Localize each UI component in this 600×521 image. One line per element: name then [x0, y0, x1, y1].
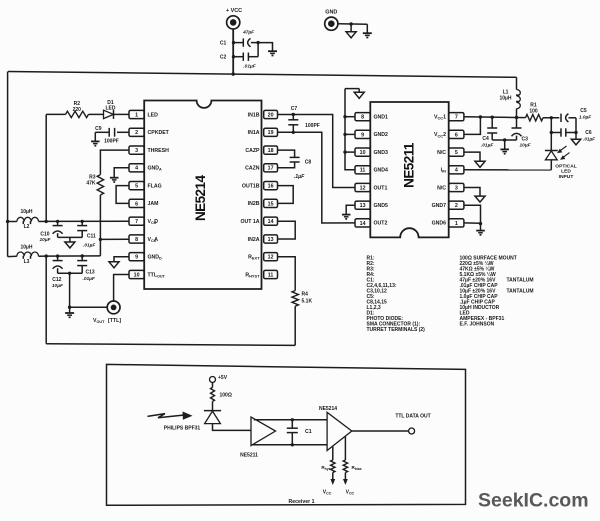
pin 12 NE5211: [355, 183, 370, 191]
svg-text:14: 14: [268, 219, 274, 225]
svg-text:LED: LED: [561, 169, 571, 175]
wire R2 row: [46, 113, 65, 115]
node L3/riser: [45, 254, 48, 257]
svg-text:C8: C8: [305, 159, 312, 165]
pin 5 NE5214: [129, 182, 144, 190]
light arrows into photodiode: [559, 146, 567, 152]
svg-text:+ VCC: + VCC: [226, 8, 242, 14]
wire pin4 GND_A: [114, 168, 129, 178]
svg-text:5: 5: [455, 150, 458, 156]
light arrows into BPF31: [148, 414, 189, 418]
svg-text:LED: LED: [148, 112, 159, 118]
svg-text:10µF: 10µF: [39, 237, 51, 243]
node GND6/7: [479, 222, 482, 225]
svg-text:C7: C7: [291, 106, 298, 112]
svg-text:CPKDET: CPKDET: [148, 130, 170, 136]
svg-text:C12: C12: [52, 277, 61, 283]
pin 13 NE5211: [355, 201, 370, 209]
node GND1: [343, 115, 346, 118]
pin 15 NE5214: [264, 199, 278, 207]
svg-text:6: 6: [135, 201, 138, 207]
capacitor C1 47uF: [234, 42, 244, 44]
svg-text:6: 6: [455, 132, 458, 138]
ground arrow C5/C6: [575, 133, 577, 140]
svg-text:C1: C1: [220, 40, 227, 46]
wire ground row to Vout terminal: [70, 306, 107, 308]
svg-text:C6: C6: [585, 130, 592, 136]
ground C9: [94, 132, 96, 141]
amplifier NE5211 receiver: [251, 417, 276, 446]
capacitor C2 .01uF: [234, 56, 244, 58]
svg-text:4: 4: [135, 166, 138, 172]
wire C3/C4 ground node: [492, 139, 516, 141]
svg-text:GND5: GND5: [374, 203, 389, 209]
wire C10/C11 ground node: [58, 236, 83, 238]
resistor R2 220: [66, 111, 89, 117]
wire pin5 N/C: [464, 152, 480, 161]
svg-text:11: 11: [268, 272, 274, 278]
svg-text:TTL DATA OUT: TTL DATA OUT: [395, 414, 430, 420]
wire pin4 Iin: [464, 169, 551, 171]
svg-text:2: 2: [455, 203, 458, 209]
svg-text:100PF: 100PF: [104, 138, 119, 144]
pin 10 NE5211: [355, 148, 370, 156]
wire Iin riser: [550, 118, 552, 150]
node C3/C4: [503, 138, 506, 141]
diode D1 LED: [104, 110, 114, 118]
ground hatch C3/C4: [500, 148, 509, 150]
svg-text:R4: R4: [302, 292, 309, 298]
svg-text:INPUT: INPUT: [559, 174, 574, 180]
svg-text:N/C: N/C: [437, 150, 446, 156]
node C1 bottom: [291, 443, 294, 446]
svg-text:+5V: +5V: [218, 375, 228, 381]
ground arrow pin3: [475, 196, 485, 202]
pin 11 NE5211: [355, 166, 370, 174]
wire bottom return loop: [46, 344, 295, 346]
svg-text:47µF: 47µF: [242, 30, 255, 36]
wire TTL data out: [352, 430, 409, 432]
svg-text:NE5214: NE5214: [193, 175, 208, 222]
svg-text:GND3: GND3: [374, 150, 389, 156]
inductor L1 10uH: [516, 77, 518, 89]
svg-text:IN1B: IN1B: [248, 112, 260, 118]
node C12 tap: [56, 254, 59, 257]
capacitor C6 .01uF: [551, 132, 561, 134]
wire L2 row to pin 7: [46, 220, 129, 222]
svg-text:8: 8: [361, 115, 364, 121]
node C6 right: [574, 131, 577, 134]
node Vout ground tee: [68, 306, 71, 309]
pin 7 NE5214: [129, 217, 144, 225]
node C10 tap: [56, 220, 59, 223]
wire C5 right down to C6: [575, 118, 577, 133]
node L1/C3 tap: [515, 116, 518, 119]
svg-text:10µF: 10µF: [52, 283, 64, 289]
svg-text:10: 10: [134, 272, 140, 278]
inductor L3 10uH: [8, 255, 17, 257]
svg-text:20: 20: [268, 112, 274, 118]
svg-text:47K: 47K: [86, 181, 96, 187]
wire pin1 GND6: [464, 222, 481, 224]
resistor R4 5.1K: [292, 291, 298, 307]
wire OUT1A-IN2A loop: [278, 221, 296, 239]
node C7 bottom: [292, 131, 295, 134]
pin 19 NE5214: [264, 128, 278, 136]
svg-text:10: 10: [360, 150, 366, 156]
capacitor C11 .01uF: [81, 221, 83, 225]
capacitor C10 10uF: [57, 221, 59, 225]
svg-text:D: D: [154, 219, 158, 225]
svg-text:CAZN: CAZN: [245, 166, 260, 172]
svg-text:.01µF: .01µF: [83, 276, 96, 282]
node GND branch: [349, 22, 352, 25]
wire GND to grounds: [338, 23, 367, 25]
svg-text:13: 13: [360, 203, 366, 209]
svg-text:OUT2: OUT2: [374, 221, 388, 227]
svg-text:8: 8: [135, 237, 138, 243]
wire pin12 Rext to R4: [278, 257, 296, 291]
pin 13 NE5214: [264, 235, 278, 243]
ground C1/C2: [268, 50, 277, 52]
svg-text:Receiver 1: Receiver 1: [289, 499, 315, 505]
node GND2: [343, 133, 346, 136]
svg-text:R3: R3: [89, 174, 96, 180]
wire Vcc1 row: [464, 116, 526, 119]
pin 20 NE5214: [264, 110, 278, 118]
svg-text:NE5211: NE5211: [402, 142, 417, 188]
node C1 top: [291, 418, 294, 421]
wire return riser lower: [45, 256, 47, 344]
pin 6 NE5214: [129, 199, 144, 207]
svg-text:R1: R1: [530, 103, 537, 109]
svg-text:OUT 1A: OUT 1A: [240, 219, 259, 225]
pin 3 NE5214: [129, 146, 144, 154]
node C11 tap: [81, 220, 84, 223]
pin 6 NE5211: [449, 130, 464, 138]
svg-text:GND6: GND6: [432, 221, 447, 227]
pin 12 NE5214: [264, 253, 278, 261]
svg-text:RHYST: RHYST: [245, 272, 260, 278]
node C2 tap: [232, 55, 235, 58]
svg-text:100: 100: [529, 109, 538, 115]
svg-text:10µH: 10µH: [20, 209, 32, 215]
capacitor C12 10uF: [57, 256, 59, 261]
svg-text:FLAG: FLAG: [148, 183, 162, 189]
svg-text:A: A: [154, 237, 158, 243]
pin 16 NE5214: [264, 182, 278, 190]
pin 3 NE5211: [449, 183, 464, 191]
svg-text:L3: L3: [24, 259, 30, 265]
wire pin13 GND5: [346, 205, 355, 214]
photodiode optical input: [545, 150, 558, 152]
svg-text:C2: C2: [220, 55, 227, 61]
pin 18 NE5214: [264, 146, 278, 154]
svg-text:E.F. JOHNSON: E.F. JOHNSON: [460, 321, 495, 327]
wire pin19 IN1A to OUT2: [278, 132, 356, 223]
svg-text:OUT1: OUT1: [374, 185, 388, 191]
svg-text:9: 9: [361, 132, 364, 138]
pin 1 NE5214: [129, 110, 144, 118]
pin 8 NE5214: [129, 235, 144, 243]
pin 14 NE5211: [355, 219, 370, 227]
capacitor C8 .1uF between CAZP/CAZN: [278, 150, 295, 157]
pin 9 NE5214: [129, 253, 144, 261]
svg-text:17: 17: [268, 166, 274, 172]
wire L3 row to VccA riser: [46, 255, 100, 257]
wire FLAG-JAM loop: [116, 186, 129, 204]
node C12/C13: [68, 272, 71, 275]
wire D1 to pin 1: [114, 113, 130, 115]
svg-text:LED: LED: [106, 106, 116, 112]
svg-text:3: 3: [135, 148, 138, 154]
terminal GND: [325, 17, 338, 30]
inductor L2 10uH: [8, 221, 17, 223]
pin 14 NE5214: [264, 217, 278, 225]
svg-text:10µH: 10µH: [20, 244, 32, 250]
wire pin6 Vcc2: [464, 117, 480, 134]
wire diff rails: [254, 419, 327, 421]
svg-text:100PF: 100PF: [305, 123, 320, 129]
svg-text:N/C: N/C: [437, 185, 446, 191]
pin 2 NE5211: [449, 201, 464, 209]
node pin8 junction: [99, 238, 102, 241]
svg-text:C11: C11: [87, 233, 96, 239]
svg-text:C13: C13: [86, 270, 95, 276]
svg-text:NE5211: NE5211: [240, 452, 258, 458]
pin 11 NE5214: [264, 270, 278, 278]
capacitor C9 100PF: [108, 128, 110, 137]
wire R3 to VccA rail: [99, 195, 101, 256]
node left rail / L2: [6, 220, 9, 223]
svg-text:C4: C4: [482, 136, 489, 142]
svg-text:1: 1: [135, 112, 138, 118]
wire OUT1B-IN2B loop: [278, 186, 294, 204]
pin 8 NE5211: [355, 113, 370, 121]
svg-text:.01µF: .01µF: [83, 242, 96, 248]
svg-text:5: 5: [135, 184, 138, 190]
svg-text:10µH: 10µH: [499, 96, 511, 102]
svg-text:THRESH: THRESH: [148, 148, 170, 154]
wire C12/C13 ground node: [58, 272, 83, 274]
op-amp U2 NE5211 transimpedance amplifier: [370, 102, 448, 237]
svg-text:5.1K: 5.1K: [302, 298, 313, 304]
svg-text:TANTALUM: TANTALUM: [507, 277, 534, 283]
pin 7 NE5211: [449, 113, 464, 121]
ground earth pin4: [110, 177, 119, 179]
svg-text:GND1: GND1: [374, 115, 389, 121]
capacitor C13 .01uF: [81, 256, 83, 261]
svg-text:7: 7: [135, 219, 138, 225]
node C7 top: [292, 113, 295, 116]
node C6 left: [550, 131, 553, 134]
svg-text:15: 15: [268, 201, 274, 207]
capacitor C1 receiver: [291, 420, 293, 428]
node L2/riser: [45, 220, 48, 223]
svg-text:.01µF: .01µF: [481, 142, 494, 148]
wire +VCC drop to supply bus: [232, 29, 234, 75]
ground hatch Vout: [69, 307, 71, 312]
pin 4 NE5211: [449, 166, 464, 174]
svg-text:1.0µF: 1.0µF: [579, 115, 592, 121]
svg-text:NE5214: NE5214: [319, 406, 337, 412]
svg-text:IN2A: IN2A: [248, 237, 260, 243]
node Vcc2 join: [479, 115, 482, 118]
wire pin8 VccA: [100, 238, 129, 240]
terminal +VCC: [227, 16, 240, 29]
svg-text:OUT1B: OUT1B: [242, 183, 260, 189]
pin 9 NE5211: [355, 130, 370, 138]
resistor Rhys receiver: [332, 447, 334, 460]
svg-text:C5: C5: [580, 108, 587, 114]
wire left rail: [7, 72, 9, 257]
svg-text:.01µF: .01µF: [583, 136, 595, 141]
svg-text:SeekIC.com: SeekIC.com: [478, 490, 589, 512]
ground hatch GND5: [342, 214, 351, 216]
resistor R3 47K: [97, 175, 103, 195]
node GND3: [343, 150, 346, 153]
svg-text:100Ω: 100Ω: [220, 393, 232, 399]
wire C1/C2 ground branch: [257, 43, 259, 57]
svg-text:TANTALUM: TANTALUM: [507, 288, 534, 294]
pin 2 NE5214: [129, 128, 144, 136]
svg-text:18: 18: [268, 148, 274, 154]
svg-text:12: 12: [268, 255, 274, 261]
ground arrow at GND terminal: [346, 32, 356, 38]
svg-text:C1: C1: [305, 429, 312, 435]
pin 1 NE5211: [449, 219, 464, 227]
pin 4 NE5214: [129, 164, 144, 172]
pin 5 NE5211: [449, 148, 464, 156]
capacitor C7 100PF: [292, 115, 294, 120]
svg-text:CAZP: CAZP: [245, 148, 260, 154]
pin 10 NE5214: [129, 270, 144, 278]
svg-text:TURRET TERMINALS (2): TURRET TERMINALS (2): [367, 327, 426, 333]
wire pin2 to C9: [117, 131, 129, 133]
svg-text:REXT: REXT: [248, 255, 260, 261]
ground arrow pin5: [475, 161, 485, 167]
svg-text:.1µF: .1µF: [294, 174, 305, 180]
node C13 tap: [81, 254, 84, 257]
node C1 tap: [232, 41, 235, 44]
svg-text:GND7: GND7: [432, 203, 447, 209]
wire R2 branch riser: [45, 114, 47, 221]
svg-text:220: 220: [73, 107, 82, 113]
svg-text:11: 11: [360, 168, 366, 174]
svg-text:VCC1: VCC1: [434, 115, 446, 121]
svg-text:L2: L2: [24, 224, 30, 230]
svg-text:JAM: JAM: [148, 201, 159, 207]
resistor R1 100: [526, 115, 544, 121]
svg-text:IIN: IIN: [441, 168, 447, 174]
wire pin3 N/C: [464, 188, 480, 197]
pin 17 NE5214: [264, 164, 278, 172]
node C4 tap: [491, 116, 494, 119]
op-amp U1 NE5214 postamplifier: [144, 101, 261, 290]
svg-text:VCC2: VCC2: [434, 132, 446, 138]
comparator NE5214 receiver: [327, 412, 352, 450]
svg-text:14: 14: [360, 221, 366, 227]
capacitor C5 1.0uF: [560, 114, 562, 122]
photodiode Philips BPF31: [204, 410, 221, 412]
svg-text:2: 2: [135, 130, 138, 136]
node bus/VCC junction: [232, 72, 235, 75]
svg-text:1: 1: [455, 221, 458, 227]
capacitor C3 10uF: [516, 118, 518, 129]
resistor Rbias receiver: [344, 437, 346, 460]
svg-text:IN1A: IN1A: [248, 130, 260, 136]
svg-text:12: 12: [360, 185, 366, 191]
svg-text:IN2B: IN2B: [248, 201, 260, 207]
wire GND1-4 bus: [345, 88, 359, 90]
wire main supply bus: [8, 72, 517, 78]
svg-text:4: 4: [455, 168, 458, 174]
svg-text:OPTICAL: OPTICAL: [555, 164, 576, 170]
terminal TTL data out: [409, 428, 415, 434]
ground arrow C10/C11: [65, 242, 75, 248]
svg-text:GND4: GND4: [374, 168, 389, 174]
svg-text:16: 16: [268, 184, 274, 190]
svg-text:.01µF: .01µF: [243, 63, 256, 69]
svg-text:9: 9: [135, 255, 138, 261]
receiver block frame: [107, 364, 466, 505]
svg-text:GND: GND: [325, 9, 337, 15]
svg-text:3: 3: [455, 185, 458, 191]
ground hatch at GND terminal: [363, 32, 372, 34]
svg-text:[TTL]: [TTL]: [108, 318, 121, 324]
ground hatch GND6/7: [476, 230, 485, 232]
wire pin20 IN1B to OUT1: [278, 115, 356, 188]
svg-text:19: 19: [268, 130, 274, 136]
svg-text:GND2: GND2: [374, 132, 389, 138]
wire pin9 GND_D: [114, 257, 129, 262]
svg-text:C9: C9: [95, 126, 102, 132]
capacitor C4 .01uF: [491, 117, 493, 128]
svg-text:C10: C10: [40, 231, 49, 237]
resistor 100 receiver: [212, 383, 214, 388]
ground arrow pin9: [109, 262, 119, 268]
svg-text:PHILIPS BPF31: PHILIPS BPF31: [164, 425, 201, 431]
svg-text:7: 7: [455, 115, 458, 121]
svg-text:C3: C3: [522, 136, 529, 142]
ground arrow NE5211 top: [358, 89, 360, 93]
wire pin3 THRESH branch: [100, 150, 129, 175]
terminal Vout TTL: [107, 301, 120, 314]
terminal +5V receiver: [210, 377, 216, 383]
node R1/C5: [550, 116, 553, 119]
svg-text:10µF: 10µF: [520, 143, 532, 149]
wire pin2 GND7: [464, 205, 481, 223]
wire pin10 TTLout to Vout terminal: [114, 275, 129, 301]
svg-text:13: 13: [268, 237, 274, 243]
